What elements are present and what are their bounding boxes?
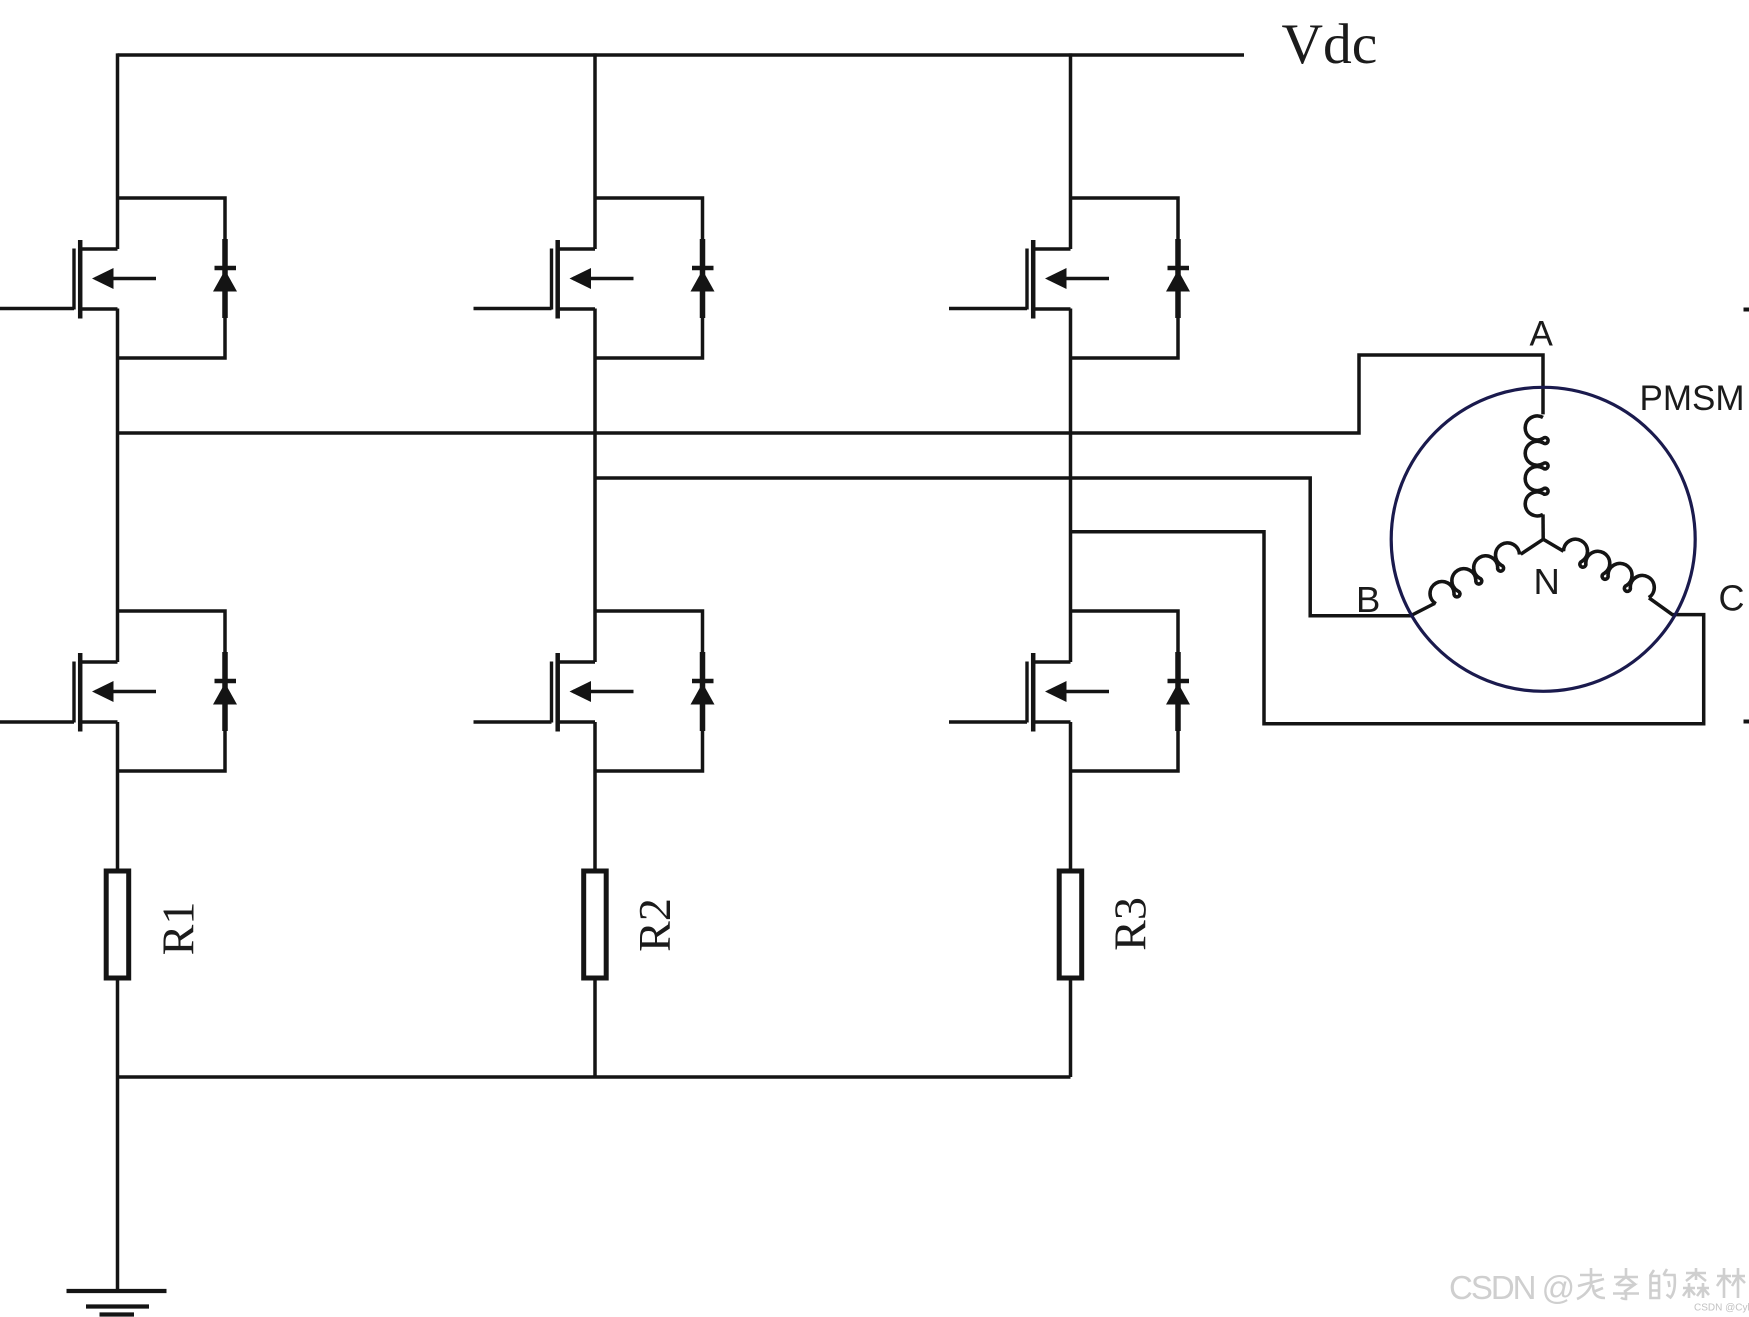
motor winding B coil [1426,538,1524,608]
svg-text:CSDN @: CSDN @ [1449,1269,1573,1306]
transistor Q1 with body diode (leg 1 high side) [74,198,237,358]
wire leg1 drain column [116,53,120,249]
star point spoke to B [1521,539,1544,554]
svg-text:PMSM: PMSM [1640,379,1745,418]
gate wire Q4 from left edge [0,720,74,724]
wire leg2 middle column [593,309,597,663]
transistor Q2 with body diode (leg 2 high side) [552,198,715,358]
svg-text:R3: R3 [1105,897,1156,951]
gate wire stub Q2 [474,307,552,311]
right edge gate tick bottom [1744,720,1749,724]
star point spoke to C [1543,539,1563,551]
phase B bus wire [595,478,1435,616]
bottom rail wire [116,1075,1071,1079]
wire leg3 drain column [1069,53,1073,249]
svg-text:R2: R2 [629,898,680,952]
phase A bus wire [118,355,1544,433]
wire leg3 middle column [1069,309,1073,663]
transistor Q5 with body diode (leg 2 low side) [552,611,715,771]
svg-text:B: B [1356,579,1380,620]
gate wire stub Q3 [949,307,1027,311]
ground bar 2 [86,1304,149,1308]
resistor R3 body [1059,871,1082,978]
Vdc positive rail wire [118,53,1245,57]
svg-text:Vdc: Vdc [1282,13,1378,76]
svg-text:R1: R1 [153,902,204,956]
gate wire Q1 from left edge [0,307,74,311]
ground stem wire [116,1077,120,1291]
ground bar 1 [67,1289,167,1293]
resistor R2 body [584,871,607,978]
wire leg1 middle column [116,309,120,663]
gate wire stub Q5 [474,720,552,724]
transistor Q6 with body diode (leg 3 low side) [1027,611,1190,771]
gate wire stub Q6 [949,720,1027,724]
wire leg1 resistor R1 to bottom rail [116,977,120,1077]
svg-text:CSDN @Cyber: CSDN @Cyber [1694,1303,1749,1314]
transistor Q4 with body diode (leg 1 low side) [74,611,237,771]
wire leg3 source to resistor R3 [1069,722,1073,872]
svg-text:A: A [1530,315,1554,354]
motor winding C coil [1560,535,1659,603]
watermark chinese glyphs [1577,1268,1745,1299]
svg-text:N: N [1534,561,1560,602]
phase C bus wire [1071,532,1704,724]
resistor R1 body [106,871,129,978]
ground bar 3 [100,1312,135,1316]
wire leg3 resistor R3 to bottom rail [1069,977,1073,1077]
wire leg2 resistor R2 to bottom rail [593,977,597,1077]
wire leg2 source to resistor R2 [593,722,597,872]
PMSM motor circle [1391,387,1695,691]
svg-text:C: C [1719,578,1745,619]
wire leg1 source to resistor R1 [116,722,120,872]
wire leg2 drain column [593,53,597,249]
motor winding A coil [1525,416,1548,516]
star point spoke to A [1541,514,1545,539]
right edge gate tick top [1744,308,1749,312]
transistor Q3 with body diode (leg 3 high side) [1027,198,1190,358]
